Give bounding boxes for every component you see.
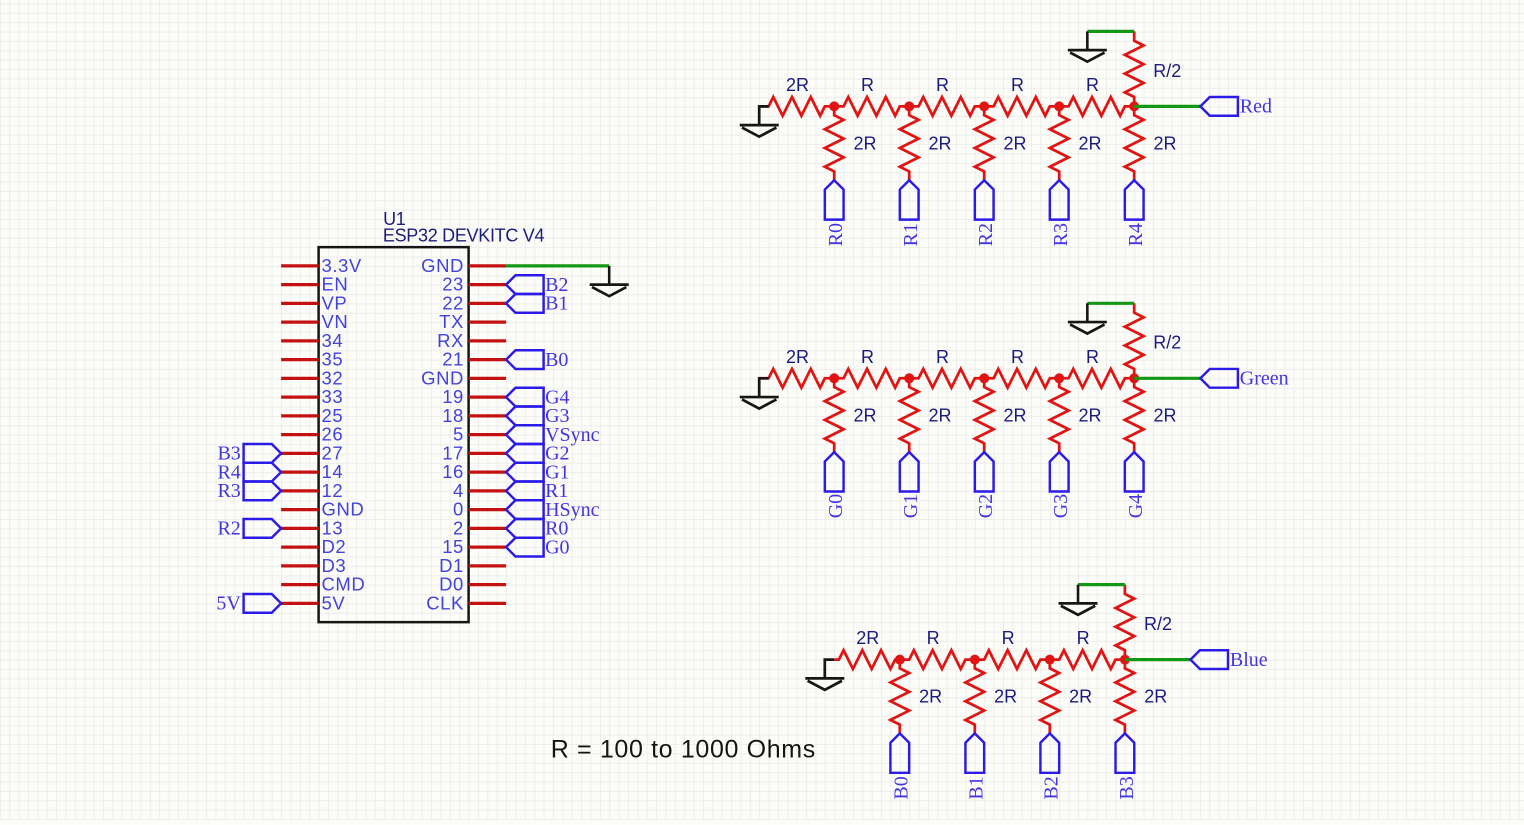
svg-text:2R: 2R [929,134,952,154]
svg-text:R2: R2 [975,223,997,246]
junction node (Green ladder node 5) [1129,373,1139,383]
net flag R0 [506,518,568,540]
resistor R (Blue ladder series 2) [900,628,975,669]
net flag R1 [900,180,922,246]
svg-text:G2: G2 [975,494,997,518]
wire Red ladder left to ground [759,106,768,125]
net flag Green [1200,368,1288,390]
net flag R2 [217,518,281,540]
resistor R (Red ladder series 4) [984,75,1059,116]
pin VN (left, wire + name) [281,311,348,332]
svg-text:G0: G0 [825,494,847,518]
svg-text:R/2: R/2 [1153,333,1181,353]
svg-text:R/2: R/2 [1144,614,1172,634]
net flag G0 [825,452,847,518]
resistor 2R (Blue ladder bit B3) [1116,660,1168,734]
pin 3.3V (left, wire + name) [281,255,362,276]
svg-text:5V: 5V [322,592,346,613]
pin 21 (right, wire + number) [442,349,506,370]
svg-text:2R: 2R [919,687,942,707]
wire Blue output (green) [1125,658,1191,661]
resistor R (Green ladder series 2) [834,347,909,388]
net flag R1 [506,480,568,502]
wire Red output (green) [1134,105,1200,108]
wire Blue ladder left to ground [825,660,834,679]
wire GND net (green) [506,264,609,267]
net flag G4 [506,386,569,408]
net flag B0 [506,349,568,371]
svg-text:R: R [861,347,874,367]
pin D3 (left, wire + name) [281,555,346,576]
resistor R (Green ladder series 3) [909,347,984,388]
pin 22 (right, wire + number) [442,292,506,313]
net flag VSync [506,424,600,446]
pin GND (left, wire + name) [281,499,364,520]
pin D0 (right, wire + number) [439,574,506,595]
pin D2 (left, wire + name) [281,536,346,557]
pin 17 (right, wire + number) [442,442,506,463]
pin 5V (left, wire + name) [281,592,345,613]
pin 18 (right, wire + number) [442,405,506,426]
pin 2 (right, wire + number) [453,517,506,538]
ground symbol (Blue ladder top) [1059,603,1098,615]
junction node (Red ladder node 5) [1129,101,1139,111]
svg-text:B0: B0 [891,776,913,799]
pin 4 (right, wire + number) [453,480,506,501]
svg-text:R: R [861,75,874,95]
resistor 2R (Blue ladder bit B1) [965,660,1017,734]
net flag G0 [506,536,569,558]
wire Blue R/2 top (green) [1078,583,1125,586]
resistor R/2 (Red ladder) [1125,31,1181,106]
junction node (Red ladder node 4) [1054,101,1064,111]
wire Red R/2 top (green) [1087,30,1134,33]
net flag B1 [506,293,568,315]
svg-text:2R: 2R [994,687,1017,707]
wire Red R/2 ground stem [1086,31,1089,50]
net flag R3 [217,480,281,502]
svg-text:R/2: R/2 [1153,61,1181,81]
net flag B0 [890,733,912,799]
wire Green output (green) [1134,377,1200,380]
svg-text:B0: B0 [545,349,568,371]
junction node (Blue ladder node 3) [1045,655,1055,665]
net flag G3 [1050,452,1072,518]
svg-text:2R: 2R [1154,134,1177,154]
resistor 2R (Blue ladder series 1) [834,628,900,669]
svg-text:2R: 2R [1004,134,1027,154]
svg-text:2R: 2R [1079,134,1102,154]
resistor R/2 (Green ladder) [1125,303,1181,378]
resistor R (Blue ladder series 3) [975,628,1050,669]
svg-text:2R: 2R [854,405,877,425]
resistor 2R (Green ladder bit G3) [1050,378,1102,452]
svg-text:R: R [1086,75,1099,95]
svg-text:2R: 2R [1154,405,1177,425]
net flag B3 [1116,733,1138,799]
svg-text:R: R [927,628,940,648]
junction node (Red ladder node 3) [979,101,989,111]
junction node (Green ladder node 3) [979,373,989,383]
wire Green R/2 ground stem [1086,303,1089,322]
pin 14 (left, wire + name) [281,461,343,482]
svg-text:R3: R3 [1050,223,1072,246]
wire Green R/2 top (green) [1087,302,1134,305]
pin 12 (left, wire + name) [281,480,343,501]
pin 13 (left, wire + name) [281,517,343,538]
resistor 2R (Green ladder bit G4) [1125,378,1177,452]
pin 5 (right, wire + number) [453,424,506,445]
pin 16 (right, wire + number) [442,461,506,482]
pin RX (right, wire + number) [437,330,506,351]
svg-text:2R: 2R [854,134,877,154]
svg-text:2R: 2R [1069,687,1092,707]
resistor R (Green ladder series 5) [1059,347,1134,388]
pin EN (left, wire + name) [281,274,348,295]
ground symbol (Red ladder top) [1068,50,1107,62]
svg-text:G4: G4 [1125,494,1147,518]
net flag G4 [1125,452,1147,518]
svg-text:2R: 2R [1004,405,1027,425]
resistor 2R (Green ladder bit G2) [975,378,1027,452]
svg-text:R0: R0 [825,223,847,246]
svg-text:R: R [1011,75,1024,95]
net flag G1 [900,452,922,518]
net flag R3 [1050,180,1072,246]
net flag Blue [1191,649,1268,671]
svg-text:B3: B3 [1116,776,1138,799]
svg-text:CLK: CLK [426,592,464,613]
resistor 2R (Red ladder bit R1) [900,106,952,180]
svg-text:R1: R1 [900,223,922,246]
wire GND stem (black) [608,266,611,285]
resistor R (Blue ladder series 4) [1050,628,1125,669]
junction node (Blue ladder node 4) [1120,655,1130,665]
ground symbol (Blue ladder left) [805,678,844,690]
svg-text:G1: G1 [900,494,922,518]
net flag B2 [1040,733,1062,799]
resistor R (Red ladder series 3) [909,75,984,116]
resistor R (Red ladder series 2) [834,75,909,116]
wire Blue R/2 ground stem [1077,585,1080,604]
pin 23 (right, wire + number) [442,274,506,295]
net flag R0 [825,180,847,246]
junction node (Green ladder node 1) [829,373,839,383]
svg-text:2R: 2R [1079,405,1102,425]
svg-text:R: R [1011,347,1024,367]
resistor 2R (Blue ladder bit B2) [1040,660,1092,734]
pin 0 (right, wire + number) [453,499,506,520]
ground symbol (Green ladder left) [740,397,779,409]
net flag Red [1200,96,1272,118]
pin CMD (left, wire + name) [281,574,365,595]
svg-text:R: R [1077,628,1090,648]
resistor 2R (Red ladder bit R4) [1125,106,1177,180]
net flag B3 [217,443,281,465]
svg-text:Red: Red [1240,96,1272,118]
net flag G1 [506,461,569,483]
svg-text:ESP32 DEVKITC V4: ESP32 DEVKITC V4 [383,225,545,245]
svg-text:R2: R2 [217,518,240,540]
svg-text:R: R [1086,347,1099,367]
resistor 2R (Blue ladder bit B0) [890,660,942,734]
svg-text:B2: B2 [1041,776,1063,799]
pin GND (right, wire + number) [421,367,506,388]
resistor R (Red ladder series 5) [1059,75,1134,116]
ground symbol (Green ladder top) [1068,322,1107,334]
value ESP32 DEVKITC V4 [383,225,545,245]
pin 32 (left, wire + name) [281,367,343,388]
pin VP (left, wire + name) [281,292,347,313]
resistor R (Green ladder series 4) [984,347,1059,388]
svg-text:5V: 5V [216,593,241,615]
net flag R2 [975,180,997,246]
net flag G2 [975,452,997,518]
resistor 2R (Red ladder bit R3) [1050,106,1102,180]
svg-text:R3: R3 [217,480,240,502]
svg-text:G0: G0 [545,536,569,558]
resistor 2R (Red ladder bit R0) [825,106,877,180]
junction node (Green ladder node 4) [1054,373,1064,383]
junction node (Blue ladder node 1) [895,655,905,665]
resistor 2R (Green ladder series 1) [759,347,834,388]
svg-text:R: R [1002,628,1015,648]
pin TX (right, wire + number) [439,311,506,332]
svg-text:R4: R4 [1125,223,1147,246]
net flag B2 [506,274,568,296]
junction node (Red ladder node 1) [829,101,839,111]
ground symbol (chip GND) [590,285,629,297]
pin 35 (left, wire + name) [281,349,343,370]
svg-text:R = 100 to 1000 Ohms: R = 100 to 1000 Ohms [551,735,816,763]
pin 34 (left, wire + name) [281,330,343,351]
reference designator U1 [383,209,406,229]
net flag HSync [506,499,600,521]
resistor 2R (Red ladder bit R2) [975,106,1027,180]
net flag G3 [506,405,569,427]
net flag R4 [217,461,281,483]
pin 27 (left, wire + name) [281,442,343,463]
note R = 100 to 1000 Ohms [551,735,816,763]
pin 15 (right, wire + number) [442,536,506,557]
pin 25 (left, wire + name) [281,405,343,426]
svg-text:R: R [936,75,949,95]
net flag B1 [965,733,987,799]
IC U1 body (ESP32 DEVKITC V4) [319,247,469,622]
pin GND (right, wire + number) [421,255,506,276]
pin D1 (right, wire + number) [439,555,506,576]
net flag 5V [216,593,281,615]
ground symbol (Red ladder left) [740,125,779,136]
svg-text:Blue: Blue [1230,649,1268,671]
resistor R/2 (Blue ladder) [1116,585,1172,660]
resistor 2R (Green ladder bit G1) [900,378,952,452]
svg-text:2R: 2R [929,405,952,425]
svg-text:2R: 2R [856,628,879,648]
svg-text:G3: G3 [1050,494,1072,518]
svg-text:2R: 2R [786,75,809,95]
svg-text:R: R [936,347,949,367]
wire Green ladder left to ground [759,378,768,397]
junction node (Red ladder node 2) [904,101,914,111]
junction node (Green ladder node 2) [904,373,914,383]
net flag R4 [1125,180,1147,246]
svg-text:B1: B1 [545,293,568,315]
resistor 2R (Green ladder bit G0) [825,378,877,452]
svg-text:Green: Green [1240,368,1289,390]
junction node (Blue ladder node 2) [970,655,980,665]
svg-text:2R: 2R [786,347,809,367]
resistor 2R (Red ladder series 1) [759,75,834,116]
svg-text:B1: B1 [966,776,988,799]
pin 33 (left, wire + name) [281,386,343,407]
net flag G2 [506,443,569,465]
pin CLK (right, wire + number) [426,592,506,613]
pin 26 (left, wire + name) [281,424,343,445]
pin 19 (right, wire + number) [442,386,506,407]
svg-text:2R: 2R [1144,687,1167,707]
